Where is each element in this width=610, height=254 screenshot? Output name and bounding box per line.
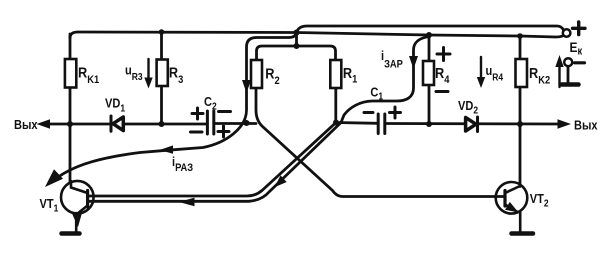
wire R4 top lead: [428, 35, 431, 61]
arrowhead u_R3: [144, 78, 152, 89]
transistor VT1: [61, 181, 94, 232]
wire C1 right to output arrow: [386, 122, 559, 125]
resistor R3: [157, 60, 168, 87]
diode VD1: [111, 116, 123, 131]
C2 polarity signs: [191, 108, 231, 137]
ground bar -Ek: [562, 82, 579, 87]
wire output line right section: [336, 121, 377, 125]
capacitor C1 plates: [378, 114, 385, 134]
ground VT1: [62, 231, 80, 236]
current path overlay top (from node A to +Ek): [297, 26, 565, 33]
transistor VT2: [496, 182, 528, 232]
resistor R2: [251, 60, 262, 88]
terminal -Ek circle: [564, 58, 572, 66]
VT2 emitter arrowhead: [505, 202, 519, 213]
wire top rail: [70, 32, 565, 38]
wire R4 bottom lead: [428, 85, 431, 124]
arrowhead i_RAZ down (on vertical): [242, 80, 251, 93]
wire left vertical (RK1 branch / VT1 collector): [69, 34, 72, 182]
arrowhead up near -Ek: [555, 55, 563, 67]
arrowhead i_ZAR down: [409, 56, 418, 69]
C1 polarity signs: [364, 107, 401, 118]
wire R2 R1 top bracket: [257, 46, 336, 60]
arrowhead on diagonal path to VT1: [275, 175, 287, 187]
arrowhead on horizontal path to VT1 base: [179, 198, 195, 207]
plus sign +Ek: [573, 22, 586, 35]
wire cross-coupling R1 node to VT1 base: [88, 123, 336, 197]
wire R1 bottom lead: [334, 88, 337, 123]
arrowhead i_RAZ big (at VT1): [45, 169, 63, 187]
wire R3 bottom lead: [160, 86, 163, 124]
terminal +Ek circle: [563, 29, 571, 37]
wire cross-coupling R2 to VT2 base: [256, 88, 505, 197]
wire output line left of C2 to node: [215, 122, 257, 125]
arrowhead i_RAZ mid (pointing left): [160, 145, 174, 153]
minus sign -Ek: [575, 61, 585, 64]
resistor R1: [330, 60, 341, 88]
wire RK2 bottom lead: [519, 87, 522, 124]
arrow shaft u_R4: [480, 57, 482, 78]
VT1 emitter arrowhead: [72, 212, 82, 227]
capacitor C2 plates: [207, 111, 213, 134]
R4 polarity signs: [436, 48, 450, 92]
arrowhead output left: [37, 119, 51, 128]
current path i_ZAR from +Ek rail down through C1 to VT1 base: [88, 37, 429, 202]
arrowhead u_R4: [477, 77, 485, 88]
arrowhead output right: [558, 119, 572, 128]
wire RK2 top lead: [519, 36, 522, 59]
ground VT2: [512, 231, 534, 236]
wire R3 top lead: [160, 32, 163, 60]
svg-text:Вых: Вых: [14, 117, 38, 132]
resistor RK2: [516, 59, 528, 87]
svg-text:Вых: Вых: [574, 118, 598, 133]
resistor RK1: [65, 59, 76, 88]
diode VD2: [466, 117, 478, 132]
wire bracket to rail link: [295, 33, 298, 47]
resistor R4: [423, 61, 434, 85]
wire -Ek terminal lead: [567, 67, 570, 85]
current path i_RAZ from node A down-left to VT1: [52, 33, 297, 183]
arrow shaft up near -Ek: [558, 64, 560, 87]
wire VT2 collector: [519, 124, 522, 187]
wire output line left: [47, 123, 207, 126]
arrow shaft u_R3: [147, 59, 149, 79]
